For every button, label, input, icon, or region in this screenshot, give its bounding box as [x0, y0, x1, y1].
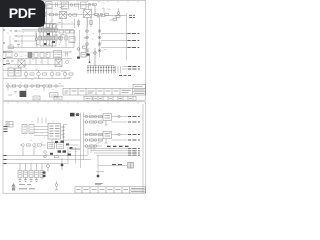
resistor R13 — [70, 30, 75, 33]
label box 3 — [54, 96, 62, 100]
resistor R11 — [59, 30, 64, 33]
diode D9 — [86, 43, 89, 46]
resistor R23 — [55, 181, 58, 190]
ground — [17, 45, 20, 47]
wire — [75, 114, 81, 116]
IC U7 — [48, 124, 61, 140]
net label channel D22 — [128, 139, 140, 141]
terminal — [3, 52, 6, 65]
resistor R8 — [95, 13, 99, 15]
ground — [30, 180, 33, 182]
wire — [96, 155, 127, 172]
net label N7 — [128, 66, 140, 68]
component labels — [7, 30, 24, 44]
sheet 2 border frame — [3, 102, 146, 193]
diode D12 — [98, 36, 101, 39]
resistor R17 — [69, 73, 73, 75]
vertical bus — [126, 13, 128, 60]
vertical bus — [80, 18, 100, 57]
connector J2b — [116, 66, 121, 73]
transistor Q4 — [63, 71, 67, 79]
wire — [8, 87, 44, 91]
ground — [24, 180, 27, 182]
relay K6 — [24, 164, 28, 180]
net label channel D21 — [128, 134, 140, 136]
diode D3 — [55, 13, 58, 16]
approval box — [133, 84, 146, 88]
component labels — [90, 110, 111, 144]
sheet 1 border frame — [3, 0, 146, 100]
wire — [38, 5, 95, 25]
transformer T5 — [18, 60, 25, 67]
capacitor C5 — [60, 34, 62, 42]
transformer T2 — [40, 16, 47, 24]
IC U8 — [48, 143, 55, 149]
transformer T1 — [40, 6, 47, 14]
resistor R9 — [105, 13, 109, 15]
wire — [34, 127, 48, 136]
channel D19 — [84, 115, 128, 118]
resistor R14 — [30, 73, 34, 75]
revision mark — [95, 183, 103, 185]
power flag — [70, 113, 79, 117]
IC U9 — [57, 143, 64, 149]
diode D30 — [44, 151, 59, 158]
diode D4 — [100, 13, 103, 16]
vertical bus — [81, 113, 84, 169]
net label bus 150.8 — [128, 150, 140, 152]
wire — [17, 30, 75, 42]
channel D21 — [84, 133, 128, 136]
net label N10 — [112, 164, 122, 166]
PDF badge — [0, 0, 45, 27]
transformer T3 — [60, 12, 67, 19]
wire — [101, 34, 134, 48]
diode D8 — [86, 36, 89, 39]
component labels — [83, 34, 106, 53]
wire — [43, 6, 104, 28]
label box — [50, 93, 59, 97]
resistor R16 — [56, 73, 60, 75]
capacitor C11 — [47, 164, 50, 172]
diode D14 — [98, 49, 101, 52]
transformer T4 — [84, 10, 92, 18]
dark mark — [41, 25, 55, 46]
transformer T6 — [55, 60, 62, 67]
output chain — [6, 85, 64, 88]
net label N3 — [129, 17, 135, 19]
resistor R10 — [8, 46, 14, 49]
terminal marks — [4, 127, 8, 132]
wire — [68, 149, 91, 160]
resistor R7 — [73, 14, 77, 16]
net label N8 — [128, 68, 140, 70]
dark mark — [77, 54, 90, 59]
capacitor C14 — [35, 33, 61, 46]
component labels — [24, 121, 59, 140]
terminal marks — [6, 61, 14, 64]
relay K3 — [40, 53, 44, 58]
optocoupler U10 — [8, 68, 21, 76]
relay K2 — [34, 53, 38, 58]
title block sheet 2 — [75, 187, 146, 193]
diode D11 — [98, 30, 101, 33]
transistor Q3 — [50, 71, 54, 79]
label strip — [119, 75, 131, 77]
diode D29 — [95, 5, 127, 17]
capacitor C13 — [97, 172, 100, 178]
net label N4 — [128, 33, 140, 35]
diode D10 — [86, 49, 89, 52]
inductor L1 — [81, 2, 87, 9]
partial channel D23 — [84, 145, 103, 148]
capacitor C8 — [15, 54, 18, 57]
capacitor C6 — [65, 34, 67, 42]
relay K1 — [28, 53, 32, 58]
ground — [8, 92, 17, 96]
wire — [122, 67, 136, 70]
wire — [8, 30, 74, 48]
diode D15 — [66, 61, 69, 64]
channel D20 — [84, 121, 128, 124]
connector J2 — [87, 66, 115, 74]
bus wires — [88, 146, 137, 155]
label box LB2 — [103, 132, 112, 139]
legend text 1 — [19, 184, 31, 186]
net label channel D19 — [128, 116, 140, 118]
wire — [3, 71, 70, 79]
transistor Q1 — [24, 71, 28, 79]
component labels — [28, 142, 77, 156]
IC U4 — [77, 46, 86, 57]
revision table — [93, 96, 136, 100]
net label N5 — [128, 40, 140, 42]
capacitor C7 — [89, 48, 97, 66]
wire — [22, 58, 59, 65]
net label N2 — [129, 14, 135, 16]
wire — [52, 125, 81, 149]
net label bus 148.6 — [128, 148, 140, 150]
capacitor C10 — [38, 118, 46, 124]
legend icon 1 — [11, 183, 15, 187]
relay K5 — [18, 164, 22, 180]
label box 2 — [33, 96, 40, 100]
resistor R25 — [90, 18, 92, 27]
diode D28 — [69, 14, 72, 17]
diode D2 — [88, 3, 91, 6]
diode D13 — [98, 43, 101, 46]
net label bus 153 — [128, 152, 140, 154]
net label channel D20 — [128, 121, 140, 123]
component labels — [10, 51, 71, 65]
capacitor C1 — [56, 3, 58, 8]
varistor RV1 — [110, 9, 121, 21]
wire — [3, 52, 72, 65]
component labels — [24, 69, 71, 79]
dark mark — [43, 172, 46, 178]
component labels — [7, 83, 61, 90]
component labels — [47, 1, 112, 22]
resistor R22 — [20, 144, 46, 156]
ground — [35, 180, 38, 182]
net label N6 — [128, 47, 140, 49]
wire — [3, 147, 76, 164]
ground — [105, 121, 108, 144]
legend icon 2 — [12, 187, 15, 190]
transistor Q2 — [37, 71, 41, 79]
label strip — [107, 145, 129, 147]
terminal — [4, 156, 7, 164]
IC U3 — [69, 37, 75, 43]
ground — [19, 180, 22, 182]
diode D7 — [86, 30, 89, 33]
doc number box — [84, 96, 92, 100]
diode D1 — [70, 4, 73, 7]
IC U1 — [62, 2, 69, 9]
resistor R15 — [43, 73, 47, 75]
diode chain D26 — [62, 125, 64, 141]
capacitor C12 — [61, 158, 64, 170]
dark mark — [50, 141, 73, 156]
connector J4 — [128, 163, 134, 169]
component labels — [37, 22, 65, 45]
stamp logo — [20, 91, 27, 97]
resistor R6 — [50, 13, 54, 15]
IC U6 — [54, 51, 62, 58]
title block sheet 1 — [63, 88, 146, 95]
resistor R4 — [93, 3, 97, 5]
filter FL1 — [46, 2, 53, 9]
legend text 2 — [19, 188, 35, 190]
capacitor C2 — [77, 19, 79, 27]
relay K8 — [35, 164, 39, 180]
diode array D6 — [39, 24, 57, 47]
resistor R12 — [65, 30, 70, 33]
wire — [66, 145, 80, 150]
capacitor C9 — [66, 52, 68, 57]
label box LB1 — [103, 114, 112, 121]
channel D22 — [84, 139, 128, 142]
terminal — [3, 30, 17, 43]
relay K9 — [40, 164, 44, 180]
connector J3 — [22, 125, 34, 134]
net label bus 155.2 — [128, 154, 140, 156]
relay K7 — [29, 164, 33, 180]
terminal block TB1 — [6, 122, 13, 128]
IC U5 — [6, 51, 12, 58]
resistor R3 — [75, 4, 79, 6]
relay K4 — [46, 53, 50, 58]
